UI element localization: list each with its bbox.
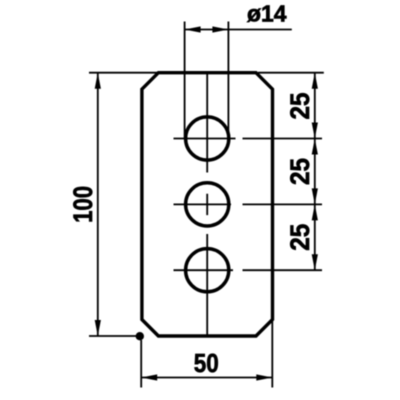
100 dimension line (97, 73, 99, 336)
corner datum dot (136, 332, 144, 340)
25 arrow up at top edge (312, 73, 318, 89)
dia14 extension line right (227, 22, 229, 140)
svg-text:25: 25 (285, 93, 315, 120)
25 arrow up below hole1 line (312, 139, 318, 155)
hole 2 horizontal centerline (174, 203, 323, 205)
right 25 dims extension line top (258, 72, 324, 74)
50 dim extension line right (271, 319, 273, 388)
25 arrow down at hole2 line (312, 188, 318, 204)
dia14 extension line left (184, 22, 186, 140)
50 arrow left (141, 374, 157, 380)
dia14 arrow right (212, 26, 228, 32)
25 arrow up below hole2 line (312, 204, 318, 220)
svg-text:25: 25 (285, 224, 315, 251)
hole 1 (top) (186, 117, 229, 160)
25 chain dimension line (314, 73, 316, 271)
plate outline (142, 73, 273, 336)
100 dim extension line top (89, 72, 158, 74)
svg-text:25: 25 (285, 158, 315, 185)
vertical centerline (206, 73, 208, 336)
hole 1 horizontal centerline (174, 138, 323, 140)
hole 2 (middle) (186, 183, 229, 226)
hole 3 horizontal centerline (174, 269, 323, 271)
100 arrow up (95, 73, 101, 89)
svg-text:ø14: ø14 (247, 1, 287, 27)
50 dimension line (141, 377, 272, 379)
25 arrow down at hole1 line (312, 123, 318, 139)
25 arrow down at hole3 line (312, 254, 318, 270)
hole 3 (bottom) (186, 249, 229, 292)
100 dim extension line bottom (89, 335, 137, 337)
dia14 dimension line (185, 29, 292, 31)
50 dim extension line left (140, 340, 142, 388)
svg-text:100: 100 (68, 186, 98, 223)
svg-text:50: 50 (194, 350, 219, 378)
dia14 arrow left (185, 26, 201, 32)
100 arrow down (95, 320, 101, 336)
50 arrow right (256, 374, 272, 380)
